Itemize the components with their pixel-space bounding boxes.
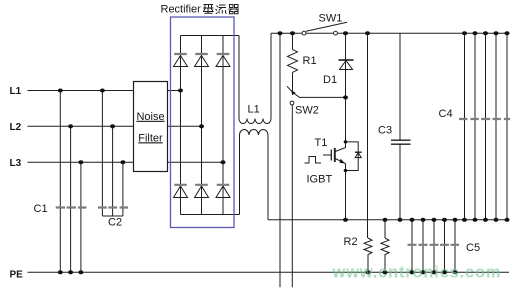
svg-text:R1: R1	[303, 55, 317, 67]
svg-text:L2: L2	[10, 122, 22, 133]
svg-text:PE: PE	[10, 270, 24, 281]
svg-text:L1: L1	[248, 103, 260, 115]
svg-text:IGBT: IGBT	[307, 174, 333, 186]
svg-text:R2: R2	[344, 236, 358, 248]
svg-text:SW2: SW2	[295, 105, 319, 117]
svg-text:C2: C2	[108, 217, 122, 229]
svg-text:D1: D1	[323, 74, 337, 86]
svg-text:C5: C5	[466, 242, 480, 254]
svg-text:L1: L1	[10, 86, 22, 97]
svg-text:C3: C3	[378, 125, 392, 137]
svg-text:www.cntronics.com: www.cntronics.com	[332, 264, 502, 282]
svg-text:C4: C4	[439, 108, 453, 120]
svg-text:C1: C1	[34, 203, 48, 215]
svg-text:SW1: SW1	[319, 13, 343, 25]
svg-text:L3: L3	[10, 158, 22, 169]
svg-text:Rectifier: Rectifier	[161, 4, 202, 16]
svg-text:Filter: Filter	[138, 132, 163, 144]
svg-text:T1: T1	[315, 137, 328, 149]
svg-text:Noise: Noise	[136, 111, 164, 123]
